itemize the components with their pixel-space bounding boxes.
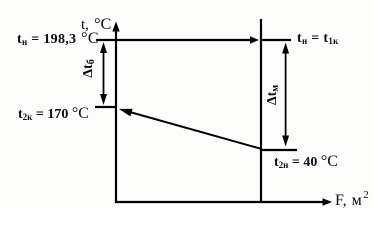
Δtм double arrow bbox=[285, 46, 287, 142]
right boundary vertical line bbox=[260, 19, 262, 203]
y-axis (t axis) bbox=[115, 28, 117, 203]
right tick at tн level bbox=[262, 39, 291, 41]
bottom right tick at t2н level bbox=[262, 149, 297, 151]
left tick at t2к level bbox=[95, 106, 117, 108]
svg-text:tн = 198,3 °C: tн = 198,3 °C bbox=[17, 30, 99, 47]
y-axis arrowhead bbox=[112, 22, 119, 32]
hot fluid isotherm line (tн) with arrow bbox=[96, 39, 252, 41]
x-axis arrowhead bbox=[323, 198, 333, 205]
x-axis (F axis) bbox=[115, 201, 325, 203]
Δtб double arrow bbox=[103, 46, 105, 101]
cold fluid line (sloped) with arrow at left end bbox=[128, 112, 261, 149]
